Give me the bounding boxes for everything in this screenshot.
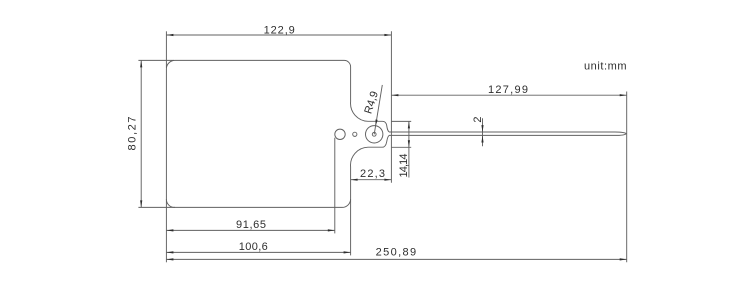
- lock hole center pin: [372, 132, 376, 136]
- svg-text:127,99: 127,99: [488, 84, 528, 96]
- svg-text:91,65: 91,65: [236, 219, 266, 231]
- extension line body top left (for 80,27): [138, 59, 174, 61]
- arrowheads 22,3: [351, 179, 358, 181]
- lock hole outer circle: [366, 126, 383, 143]
- small hole: [353, 132, 357, 136]
- dimension line 127,99: [391, 94, 626, 96]
- svg-text:100,6: 100,6: [239, 241, 268, 253]
- medium hole: [335, 129, 345, 139]
- extension line body right (for 100,6): [350, 199, 352, 255]
- svg-text:2: 2: [472, 116, 484, 122]
- arrowheads 127,99: [391, 94, 398, 96]
- svg-text:22,3: 22,3: [360, 168, 385, 180]
- arrowheads 2: [481, 125, 483, 132]
- extension line strap tip (for 127,99 / 250,89): [626, 92, 628, 263]
- arrowheads 122,9: [166, 34, 173, 36]
- dimension line 80,27: [140, 60, 142, 207]
- extension line left edge bottom (for 91,65 / 100,6 / 250,89): [165, 199, 167, 262]
- arrowheads 100,6: [166, 251, 173, 253]
- extension line left edge top (for 122,9): [165, 31, 167, 68]
- arrowheads 250,89: [166, 258, 173, 260]
- extension line nose bottom (for 14,14): [391, 146, 411, 148]
- dimension line 100,6: [166, 251, 350, 253]
- dimension line 14,14: [408, 121, 410, 177]
- svg-text:14,14: 14,14: [398, 154, 410, 178]
- dimension line 2 (strap thickness): [482, 118, 484, 146]
- svg-text:250,89: 250,89: [376, 246, 417, 258]
- arrowheads 14,14: [408, 121, 410, 128]
- dimension line 91,65: [166, 229, 334, 231]
- svg-text:122,9: 122,9: [264, 25, 295, 37]
- seal body outline: [166, 60, 626, 207]
- dimension line 250,89: [166, 258, 626, 260]
- arrowheads 91,65: [166, 229, 173, 231]
- arrowhead R4,9 leader: [376, 120, 378, 126]
- arrowheads 80,27: [140, 60, 142, 67]
- svg-text:80,27: 80,27: [126, 117, 138, 151]
- svg-text:unit:mm: unit:mm: [584, 61, 627, 73]
- dimension line 122,9: [166, 34, 391, 36]
- extension line body bottom left (for 80,27): [138, 206, 175, 208]
- dimension line 22,3: [351, 179, 392, 181]
- extension line nose tip vertical (for 122,9 / 127,99 / 22,3): [390, 31, 392, 182]
- extension line medium hole tangent (for 91,65): [334, 138, 336, 234]
- extension line nose top (for 14,14): [391, 120, 411, 122]
- leader line R4,9: [374, 85, 382, 134]
